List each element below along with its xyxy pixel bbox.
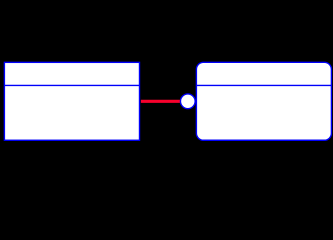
- box B1 (left block): [4, 62, 139, 140]
- box B2 (right rounded block): [196, 62, 331, 140]
- wire: red connector: [141, 100, 180, 103]
- divider line of B1: [4, 84, 139, 86]
- port circle P1: [180, 94, 195, 109]
- divider line of B2: [196, 84, 331, 86]
